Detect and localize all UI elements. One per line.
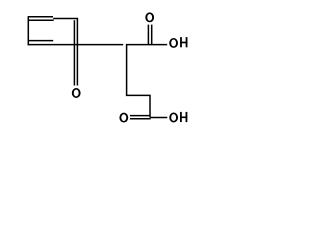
bottom acid hydroxyl label OH : O [169,113,178,123]
benzene ring top edge right segment [53,18,77,20]
top acid C=O double bond line left [147,25,149,44]
benzene ring inner double-bond line top [29,19,54,21]
benzene ring right edge outer continuing as ketone C=O line [76,18,78,86]
bottom acid C=O double bond line lower [130,118,151,120]
benzene ring top edge left segment [28,16,53,18]
benzene ring right inner double-bond continuing as ketone C=O line [73,20,75,85]
benzene ring bottom edge continuing as bond to alpha carbon (wire) [28,44,124,46]
bottom acid C=O double bond line upper [130,115,150,117]
bond alpha carbon down (wire) [126,45,128,96]
top acid hydroxyl label OH : H [180,37,187,47]
top acid C=O double bond line right [151,25,153,44]
bottom acid carbonyl oxygen label O [119,113,128,123]
bond alpha carbon to top carboxyl C and on to OH (wire) [126,44,167,46]
chain bond horizontal bottom (wire) [126,94,151,96]
bond down to bottom carboxyl C (wire) [149,95,151,117]
ketone oxygen label O [72,88,81,98]
bottom acid hydroxyl label OH : H [180,112,187,122]
benzene ring inner double-bond line bottom [29,40,53,42]
benzene ring left edge [27,16,29,45]
top acid hydroxyl label OH : O [169,38,178,48]
bottom acid C-OH bond (wire) [150,117,167,119]
top acid carbonyl oxygen label O [145,12,154,22]
